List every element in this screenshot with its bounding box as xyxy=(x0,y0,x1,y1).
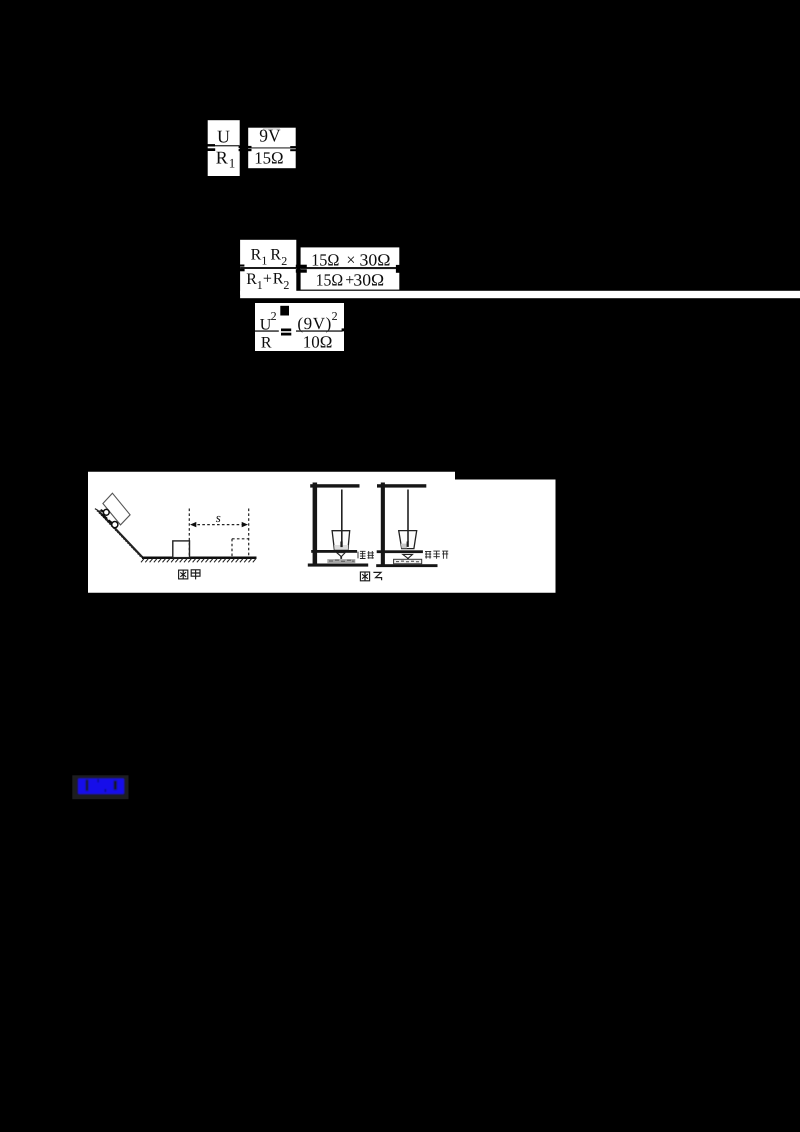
lab stand 1 xyxy=(308,483,368,567)
ground line xyxy=(142,557,257,560)
burner funnel 1 xyxy=(337,553,346,557)
block on ground xyxy=(173,541,190,558)
formula 3 fraction U^2/R = (9V)^2/10ohm white box xyxy=(255,303,344,352)
speckled pad 1 xyxy=(327,559,355,563)
formula 1 equals sign left xyxy=(203,144,215,151)
answer label highlight box xyxy=(72,775,128,799)
cart wheel upper xyxy=(103,509,109,515)
incline surface xyxy=(99,511,144,558)
svg-text:R: R xyxy=(216,147,228,167)
formula 1 equals sign right xyxy=(290,146,299,151)
svg-text:2: 2 xyxy=(332,309,338,323)
svg-text:15Ω: 15Ω xyxy=(311,250,339,269)
svg-text:R: R xyxy=(246,271,257,288)
svg-text:×: × xyxy=(346,252,355,269)
svg-text:15Ω: 15Ω xyxy=(316,270,344,289)
svg-text:R: R xyxy=(261,334,272,351)
formula 2 equals sign middle xyxy=(296,265,307,273)
svg-text:1: 1 xyxy=(229,156,236,171)
svg-text:10Ω: 10Ω xyxy=(303,333,333,352)
formula 2 white strip under equation xyxy=(240,291,800,298)
dish with scraps 2 xyxy=(394,559,422,564)
svg-text:1: 1 xyxy=(257,278,263,292)
ring clamp bar 2 xyxy=(377,550,423,553)
svg-text:30Ω: 30Ω xyxy=(360,250,391,269)
formula 2 fraction R1R2/(R1+R2) white box xyxy=(240,240,296,295)
label tu-jia (figure A) xyxy=(179,570,200,580)
svg-text:R: R xyxy=(273,271,284,288)
svg-text:s: s xyxy=(216,510,221,525)
svg-text:R: R xyxy=(270,247,281,264)
dashed vertical line right xyxy=(248,509,250,558)
formula 1 equals sign middle xyxy=(239,146,252,151)
cart wheel lower xyxy=(112,522,118,528)
dashed step final position xyxy=(232,538,249,540)
svg-text:2: 2 xyxy=(281,254,287,268)
svg-text:15Ω: 15Ω xyxy=(254,148,283,167)
formula 1 fraction U/R1 white box xyxy=(208,120,240,176)
label sui-zhi-pian (paper scraps) xyxy=(425,551,448,559)
formula 2 equals sign left xyxy=(236,265,244,272)
answer label blue text xyxy=(78,778,125,794)
lab stand 2 xyxy=(376,483,437,568)
incline hatching xyxy=(95,509,143,558)
thermometer 2 xyxy=(407,490,409,543)
hatch blob near wheels xyxy=(101,510,113,524)
beaker 2 xyxy=(399,531,417,549)
dashed vertical line left xyxy=(188,509,190,558)
svg-text:2: 2 xyxy=(271,309,277,323)
pedestal funnel 2 xyxy=(403,554,413,558)
figure white background xyxy=(88,472,556,593)
svg-text:U: U xyxy=(217,127,230,147)
thermometer 1 xyxy=(341,490,343,543)
label tu-yi (figure B) xyxy=(360,572,381,581)
svg-text:30Ω: 30Ω xyxy=(353,270,384,289)
svg-text:(9V): (9V) xyxy=(297,314,332,333)
ground hatching xyxy=(141,559,256,563)
physics figure image xyxy=(88,472,556,593)
beaker 1 xyxy=(332,531,350,550)
formula 1 fraction 9V/15ohm white box xyxy=(248,126,296,169)
svg-text:1: 1 xyxy=(261,254,267,268)
formula 2 equals sign right xyxy=(396,265,403,273)
label jiu-jing (alcohol) xyxy=(358,551,374,559)
distance arrow s xyxy=(193,524,246,526)
formula 2 fraction 15x30 white box xyxy=(301,247,400,289)
cart on incline xyxy=(103,493,130,525)
svg-text:9V: 9V xyxy=(259,126,280,146)
svg-text:R: R xyxy=(251,247,262,264)
ring clamp bar 1 xyxy=(311,550,357,553)
svg-text:2: 2 xyxy=(283,278,289,292)
svg-text:+: + xyxy=(263,271,272,288)
